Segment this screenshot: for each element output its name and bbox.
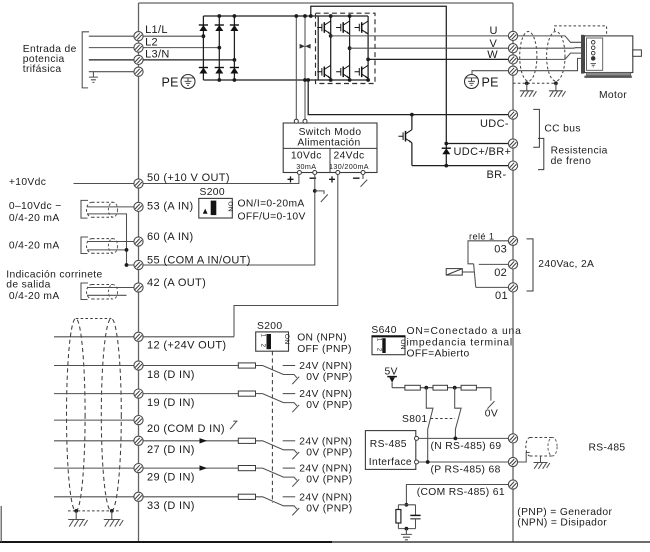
svg-text:+10Vdc: +10Vdc [9,177,46,188]
svg-text:53 (A IN): 53 (A IN) [147,200,194,212]
earth ground RC [401,529,412,540]
switch S640 [371,325,406,355]
switch hook row 27 [292,452,299,459]
relay rating bracket [527,239,534,291]
wire L1 input [89,35,134,37]
switch contact row 19 [256,394,298,406]
RS-485 drop cable shield tube [526,437,557,456]
svg-text:2: 2 [376,348,382,352]
svg-text:19 (D IN): 19 (D IN) [147,397,195,409]
signal arrow row 27 [200,438,208,443]
svg-text:S200: S200 [257,321,282,332]
svg-text:24V (NPN): 24V (NPN) [299,361,352,372]
inverter leg column 1 [330,16,332,80]
junction dots rectifier bottom rail [217,78,221,82]
resistor row 33 [238,494,255,499]
terminal 12 [134,332,143,341]
motor cable shield dashed bottom bond [513,82,556,84]
inverter leg column 2 [349,16,351,80]
junction dots DC feed on bottom rail [303,78,307,82]
svg-text:50 (+10 V OUT): 50 (+10 V OUT) [147,172,230,184]
brake chopper IGBT [398,130,412,143]
5V supply tick [387,377,397,388]
phase node dots U V W [329,34,333,38]
IGBT Q3 top leg3 [355,21,369,34]
IGBT Q6 bottom leg3 [355,65,369,78]
svg-text:de freno: de freno [551,156,592,167]
pull-up resistor R1 [405,385,420,390]
terminal 27 wire to resistor [143,440,238,442]
relay coil actuating wire [462,271,474,273]
DC bus feed line A to switch-mode supply [295,16,297,119]
svg-text:S640: S640 [371,325,396,336]
RC capacitor plates [410,515,420,518]
svg-text:L2: L2 [145,36,158,48]
svg-text:Alimentación: Alimentación [297,137,360,148]
terminal UDC- [508,110,517,119]
switch hook row 19 [292,405,299,412]
label: Entrada de potencia trifasica [23,44,77,75]
COM A net wire 55 [127,175,315,266]
terminal BR- [508,161,517,170]
terminal 29 input wire left [54,467,134,469]
terminal 02 [508,260,517,269]
wire W to motor [518,53,592,59]
UDC+ net wire from top rail around inverter to terminal [311,6,509,143]
motor cable shield dashed bond to motor [555,26,607,37]
svg-text:S200: S200 [200,187,225,198]
svg-text:OFF=Abierto: OFF=Abierto [407,348,470,359]
+24V OUT net wire from supply to terminal 12 [234,175,338,337]
analog cable 60 signal wire [87,241,134,243]
dashed shield top bond [76,318,112,320]
svg-text:0/4-20 mA: 0/4-20 mA [9,213,60,224]
PE earth circle symbol right [465,75,499,90]
svg-text:0V: 0V [485,409,498,420]
junction dot UDC+ diode tap [444,142,448,146]
svg-text:(N RS-485) 69: (N RS-485) 69 [431,441,502,452]
junction dot RC bottom [405,527,409,531]
svg-text:RS-485: RS-485 [589,443,626,454]
terminal 19 wire to resistor [143,393,238,395]
svg-text:ON: ON [227,201,234,212]
svg-text:01: 01 [495,290,508,302]
chassis ground digital shield 1 [68,511,87,527]
RS-485 drop cable wire from 68 [518,453,530,463]
terminal 18 input wire left [54,365,134,367]
terminal 33 input wire left [54,496,134,498]
svg-text:240Vac, 2A: 240Vac, 2A [538,259,594,270]
rectifier leg column 1 [202,16,204,80]
wire PE input [89,71,134,73]
svg-text:Interface: Interface [369,457,412,468]
relay contact 01 wire [476,286,509,288]
brake chopper IGBT emitter wire to BR- [411,143,413,166]
terminal 19 input wire left [54,393,134,395]
svg-text:0–10Vdc −: 0–10Vdc − [9,201,62,212]
diode D5 lower leg2 [215,68,224,74]
brake diode column [445,144,447,166]
svg-text:24V (NPN): 24V (NPN) [299,492,352,503]
svg-text:Switch Modo: Switch Modo [299,127,362,138]
switch contact row 33 [256,497,298,509]
junction dot 10Vdc minus branch [313,189,317,193]
terminal 18 wire to resistor [143,365,238,367]
page bottom rule [0,541,650,543]
svg-text:5V: 5V [385,366,398,377]
drive enclosure frame top border [139,2,514,4]
wire phase W to terminal [368,58,508,60]
DC bus feed line B to switch-mode supply [304,16,306,119]
svg-text:OFF (PNP): OFF (PNP) [297,344,352,355]
IGBT Q4 bottom leg1 [317,65,331,78]
terminal UDC+/BR+ [508,139,517,148]
CC bus bracket [533,109,539,147]
svg-text:PE: PE [482,76,499,90]
junction dot N termination [454,437,458,441]
svg-text:42 (A OUT): 42 (A OUT) [147,277,206,289]
motor M1 [581,35,641,78]
label PE left with earth circle [162,75,196,90]
switch contact row 29 [256,468,298,480]
svg-text:0V (PNP): 0V (PNP) [306,447,352,458]
terminal 12 wire [54,336,234,338]
terminal W [508,55,517,64]
terminal 03 [508,236,517,245]
svg-text:ON=Conectado a una: ON=Conectado a una [407,326,522,337]
junction dot cable60 return [125,248,129,252]
analog cable 60 bracket [81,237,88,254]
24V tap dash row 19 [283,393,296,395]
junction dot COM at common column [125,263,129,267]
pull-up resistor R3 [461,385,476,390]
junction dot pull-up tap 2 [453,386,457,390]
ground earth symbol on PE input [89,72,98,83]
svg-text:BR-: BR- [487,169,507,181]
terminal PE right [508,66,517,75]
termination switch S801 pole 1 [426,388,433,462]
junction dots inverter top rail [329,14,333,18]
inverter leg column 3 [367,16,369,80]
terminal V [508,44,517,53]
IGBT Q5 bottom leg2 [336,65,350,78]
analog cable 53 signal wire [87,206,134,208]
rectifier DC+ top rail [203,15,368,17]
terminal 01 [508,283,517,292]
RC network bottom wire [398,528,415,530]
svg-text:ON/I=0-20mA: ON/I=0-20mA [238,198,305,209]
svg-text:33 (D IN): 33 (D IN) [147,500,195,512]
switch contact row 27 [256,441,298,453]
svg-text:W: W [487,49,498,61]
junction dots DC feed on top rail [294,14,298,18]
svg-text:U: U [490,25,498,37]
svg-text:0V (PNP): 0V (PNP) [306,475,352,486]
svg-text:UDC+/BR+: UDC+/BR+ [454,146,512,158]
wire L3 input [89,59,134,61]
chassis ground stub 2 under cable [549,83,566,97]
common mark at 20 [230,421,238,429]
svg-text:1: 1 [376,338,382,342]
analog cable 42 bracket [81,283,88,300]
analog cable 60 shield tube [86,239,117,254]
terminal L1/L [134,32,143,41]
terminal 33 [134,492,143,501]
RC termination network top node [405,503,409,507]
brake diode [442,148,451,154]
svg-text:18 (D IN): 18 (D IN) [147,369,195,381]
resistor row 18 [238,363,255,368]
terminal 68 [508,457,517,466]
svg-text:CC bus: CC bus [544,124,580,135]
junction dot P termination [426,460,430,464]
analog cable 42 return wire [87,294,127,296]
svg-text:0V (PNP): 0V (PNP) [306,400,352,411]
terminal PE left [134,67,143,76]
input bracket [82,32,89,88]
svg-text:0/4-20 mA: 0/4-20 mA [9,291,60,302]
svg-text:L3/N: L3/N [145,49,170,61]
RC resistor [396,510,401,524]
interface pin circle N [415,436,419,440]
svg-text:+: + [287,173,294,187]
svg-text:20 (COM D IN): 20 (COM D IN) [147,423,225,435]
diode D3 upper leg3 [230,25,239,31]
signal arrow row 29 [200,465,208,470]
diode D2 upper leg2 [215,25,224,31]
COM RS-485 net wire [406,485,508,505]
switch contact row 18 [256,366,298,378]
terminal L3/N [134,55,143,64]
rectifier leg column 3 [233,16,235,80]
svg-text:27 (D IN): 27 (D IN) [147,444,195,456]
terminal 60 [134,237,143,246]
terminal 33 wire to resistor [143,496,238,498]
svg-text:24V (NPN): 24V (NPN) [299,389,352,400]
24V tap dash row 27 [283,440,296,442]
24V tap dash row 29 [283,467,296,469]
RC capacitor branch [415,505,417,529]
terminal 19 [134,389,143,398]
svg-text:0V (PNP): 0V (PNP) [306,372,352,383]
RC network top wire [398,504,415,506]
terminal 18 [134,361,143,370]
24V tap dash row 33 [283,496,296,498]
svg-text:0V (PNP): 0V (PNP) [306,503,352,514]
5V pull-up rail wire [392,388,491,401]
relay coil K1 [446,269,462,276]
junction dot UDC+ tap on top rail [309,14,313,18]
drive enclosure frame right border [512,3,514,542]
resistor row 29 [238,466,255,471]
chassis ground RS-485 cable [534,456,550,469]
svg-text:S801: S801 [402,414,427,425]
junction dots rectifier top rail [217,14,221,18]
switch hook row 29 [292,479,299,486]
+10V OUT net wire [74,175,299,184]
wire L3 to rectifier leg3 [143,59,234,61]
analog cable 53 shield tube [87,202,118,217]
wire V to motor [518,47,592,50]
switch hook row 18 [292,377,299,384]
svg-text:29 (D IN): 29 (D IN) [147,471,195,483]
wire L2 to rectifier leg2 [143,47,219,49]
diode D6 lower leg3 [230,68,239,74]
svg-text:−: − [353,171,361,186]
terminal 42 [134,283,143,292]
P RS-485 net wire [419,461,509,463]
svg-text:(COM RS-485) 61: (COM RS-485) 61 [417,487,505,498]
terminal 50 [134,179,143,188]
analog cable 42 signal wire [87,287,134,289]
Resistencia de freno bracket [538,138,544,169]
svg-text:+: + [329,173,336,187]
relay contact 03 wire [468,241,508,264]
terminal 29 [134,464,143,473]
diode D4 lower leg1 [199,68,208,74]
junction dots inverter bottom rail [329,78,333,82]
svg-text:OFF/U=0-10V: OFF/U=0-10V [238,212,306,223]
svg-text:Motor: Motor [599,90,627,101]
svg-text:24Vdc: 24Vdc [334,151,365,162]
chassis ground digital shield 2 [104,511,123,527]
svg-text:relé 1: relé 1 [469,231,494,241]
S801 mechanical link dashed [431,418,456,420]
dashed NPN/PNP mode line [271,351,273,503]
svg-text:V: V [490,38,498,50]
svg-text:ON: ON [283,334,290,345]
0V hook [487,401,494,409]
24V tap dash row 18 [283,365,296,367]
motor cable shield ellipse 2 [547,32,565,82]
IGBT Q1 top leg1 [317,21,331,34]
wire PE right terminal [472,71,508,75]
switch S200 analog [199,187,234,218]
svg-text:impedancia terminal: impedancia terminal [407,338,513,349]
resistor row 19 [238,391,255,396]
svg-text:(P RS-485) 68: (P RS-485) 68 [431,465,501,476]
terminal 20 [134,416,143,425]
svg-text:10Vdc: 10Vdc [291,151,322,162]
svg-text:trifásica: trifásica [23,64,62,75]
supply box top pin circles [294,119,298,123]
svg-text:2: 2 [260,344,266,348]
svg-text:de salida: de salida [6,280,50,291]
svg-text:02: 02 [494,267,507,279]
digital cable shield ellipse B [101,319,121,512]
svg-text:L1/L: L1/L [145,24,168,36]
analog cable 42 shield tube [87,285,118,300]
digital cable shield ellipse A [67,319,86,512]
junction dot UDC- chopper tap [410,113,414,117]
drive enclosure frame left border [138,3,140,542]
svg-text:130/200mA: 130/200mA [329,162,369,171]
svg-text:UDC-: UDC- [480,118,509,130]
terminal L2 [134,43,143,52]
terminal 55 [134,260,143,269]
svg-text:PE: PE [162,76,179,90]
svg-text:−: − [309,171,317,186]
UDC- net wire from bottom rail to terminal [308,80,508,115]
terminal 20 input wire left [54,419,134,421]
wire U to motor [518,36,592,42]
supply box bottom pin circles [297,171,301,175]
relay contact 02 wire [479,263,509,265]
terminal 69 [508,434,517,443]
switch mode power supply box U2 [283,123,377,173]
rectifier leg column 2 [218,16,220,80]
IGBT Q2 top leg2 [336,21,350,34]
terminal 27 [134,436,143,445]
junction dot pull-up tap 1 [424,386,428,390]
BR- net wire to terminal [412,165,509,167]
svg-text:0/4-20 mA: 0/4-20 mA [9,241,60,252]
N RS-485 net wire [419,437,509,439]
analog cable 60 return wire [87,249,127,251]
terminal 27 input wire left [54,440,134,442]
open-switch hook at 10Vdc minus branch [315,191,328,202]
terminal 29 wire to resistor [143,467,238,469]
wire phase U to terminal [331,35,509,37]
svg-text:RS-485: RS-485 [370,439,407,450]
svg-text:03: 03 [494,243,507,255]
brake chopper IGBT collector wire [411,115,413,130]
pull-up resistor R2 [433,385,448,390]
svg-text:1: 1 [260,334,266,338]
svg-text:24V (NPN): 24V (NPN) [299,436,352,447]
junction dots rectifier phase taps [202,34,206,38]
junction dots shield bottom [74,509,78,513]
stray page-edge line bottom-left [0,506,2,542]
inverter inner bus left side [317,16,319,80]
switch hook row 33 [292,508,299,515]
analog cable 53 bracket [81,200,88,218]
wire shield/PE to motor [518,58,592,70]
inverter dashed enclosure [316,13,376,83]
resistor row 27 [238,438,255,443]
diode D1 upper leg1 [199,25,208,31]
RC resistor branch [397,505,399,529]
svg-text:(PNP) = Generador: (PNP) = Generador [517,507,612,518]
svg-text:55 (COM A IN/OUT): 55 (COM A IN/OUT) [147,254,251,266]
RS-485 interface box [365,431,415,470]
svg-text:(NPN) = Disipador: (NPN) = Disipador [517,517,607,528]
junction dots shield bonds [525,81,529,85]
chassis ground stub 1 under cable [520,83,537,97]
svg-text:60 (A IN): 60 (A IN) [147,231,194,243]
svg-text:12 (+24V OUT): 12 (+24V OUT) [147,340,226,352]
relay contact arm [474,264,476,288]
termination switch S801 pole 2 [455,388,461,439]
terminal 61 [508,480,517,489]
switch S200 digital [256,321,290,351]
wire L2 input [89,47,134,49]
open-switch hook at 24Vdc minus pin [361,175,368,187]
DC link capacitor symbol [300,44,311,49]
svg-text:24V (NPN): 24V (NPN) [299,464,352,475]
terminal 53 [134,202,143,211]
motor cable shield ellipse 1 [520,32,537,82]
svg-text:ON: ON [399,339,406,350]
terminal U [508,31,517,40]
wire phase V to terminal [350,47,509,49]
interface pin circle P [415,460,419,464]
analog cable 53 return wire [87,214,127,265]
svg-text:ON (NPN): ON (NPN) [297,332,347,343]
wire L1 to rectifier leg1 [143,35,203,37]
dashed shield bottom bond [68,510,119,512]
rectifier DC- bottom rail [203,79,368,81]
